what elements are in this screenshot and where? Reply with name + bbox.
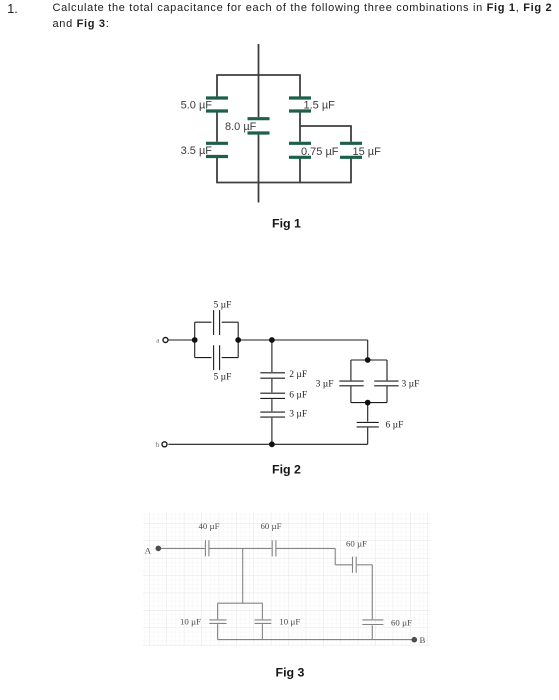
svg-text:Fig 2: Fig 2 [272, 463, 301, 477]
wire: right loop left side segments [350, 360, 352, 403]
node dot right of 5uF loop [235, 337, 241, 343]
svg-text:B: B [420, 635, 426, 645]
wire: parallel block top side [218, 602, 263, 604]
node dot bottom of right loop [365, 400, 371, 406]
svg-text:15 µF: 15 µF [353, 146, 382, 158]
svg-text:60 µF: 60 µF [261, 521, 282, 531]
svg-text:3.5 µF: 3.5 µF [181, 145, 213, 157]
node dot main junction [269, 337, 275, 343]
svg-text:1.5 µF: 1.5 µF [304, 100, 336, 112]
svg-text:a: a [156, 336, 160, 344]
svg-text:10 µF: 10 µF [279, 616, 300, 626]
capacitor 3uF right plates [374, 381, 398, 386]
wire: right loop top side [351, 359, 387, 361]
wire: parallel block right side [261, 603, 263, 639]
capacitor 40uF plates [205, 540, 209, 556]
svg-text:0.75 µF: 0.75 µF [301, 146, 339, 158]
wire: right branch down [371, 565, 373, 640]
capacitor 8.0uF plates [248, 119, 270, 133]
wire: step to 60uF mid [335, 564, 352, 566]
svg-text:40 µF: 40 µF [199, 521, 220, 531]
question number [7, 2, 18, 16]
svg-text:5 µF: 5 µF [214, 373, 232, 383]
terminal a [163, 338, 168, 343]
capacitor 60uF mid plates [353, 557, 357, 573]
svg-text:b: b [156, 441, 160, 449]
wire: 40uF to 60uF [210, 547, 272, 549]
svg-text:A: A [145, 545, 152, 555]
capacitor 5uF bottom plates [214, 345, 220, 370]
svg-text:5 µF: 5 µF [214, 301, 232, 311]
capacitor 3uF left plates [339, 381, 363, 386]
svg-text:3 µF: 3 µF [289, 410, 307, 420]
wire: step down [334, 548, 336, 564]
question text line 2 [53, 18, 110, 30]
svg-text:Fig 3: Fig 3 [276, 665, 305, 679]
wire: sub-branch horizontal [300, 125, 352, 127]
capacitor 15uF plates [340, 143, 362, 157]
wire: center vertical bottom segment [258, 135, 260, 203]
capacitor 5uF top plates [214, 310, 220, 335]
capacitor 3.5uF plates [206, 143, 228, 156]
wire: bottom rail b [168, 443, 367, 445]
svg-text:3 µF: 3 µF [402, 379, 420, 389]
capacitor 5.0uF plates [206, 98, 228, 111]
capacitor 3uF plates (middle branch) [260, 412, 285, 417]
svg-text:6 µF: 6 µF [386, 421, 404, 431]
wire: right loop right side segments [386, 360, 388, 403]
capacitor 6uF plates (middle branch) [260, 393, 285, 398]
capacitor 2uF plates [260, 373, 285, 378]
terminal B dot [412, 637, 418, 643]
node dot left of 5uF loop [192, 337, 198, 343]
terminal b [162, 442, 167, 447]
wire: middle series branch segments [271, 340, 273, 444]
capacitor 60uF lower plates [362, 620, 383, 625]
wire: main horizontal to right network [238, 339, 368, 341]
wire: bottom rail [216, 182, 352, 184]
svg-text:Fig 1: Fig 1 [272, 217, 301, 231]
capacitor 60uF top plates [272, 540, 276, 556]
capacitor 0.75uF plates [289, 143, 311, 157]
wire: left parallel loop left side [194, 322, 196, 357]
wire: a to left node [168, 339, 194, 341]
svg-text:2 µF: 2 µF [289, 370, 307, 380]
capacitor 6uF plates (right branch) [357, 422, 379, 427]
wire: loop bottom side segments [195, 357, 239, 359]
node dot bottom rail junction [269, 441, 275, 447]
wire: 60uF mid to right corner [357, 564, 373, 566]
wire: A to 40uF [161, 547, 205, 549]
wire: loop top side segments [195, 321, 239, 323]
wire: parallel block left side [217, 603, 219, 639]
svg-text:6 µF: 6 µF [289, 391, 307, 401]
wire: center vertical top segment [258, 44, 260, 117]
svg-text:5.0 µF: 5.0 µF [181, 100, 213, 112]
wire: right branch upper [299, 75, 301, 183]
capacitor 1.5uF plates [289, 98, 311, 111]
wire: down to top node of right loop [367, 340, 369, 360]
svg-text:3 µF: 3 µF [316, 379, 334, 389]
wire: loop right side [237, 322, 239, 357]
question text line 1 [53, 2, 553, 14]
capacitor 10uF left plates [209, 620, 226, 624]
grid background [143, 512, 431, 646]
wire: junction down to parallel block [242, 548, 244, 603]
svg-text:8.0 µF: 8.0 µF [225, 121, 257, 133]
terminal A dot [156, 546, 162, 552]
wire: right loop bottom side [351, 402, 387, 404]
wire: 15uF branch vertical [350, 126, 352, 183]
wire: bottom rail to B [218, 639, 412, 641]
wire: top rail [216, 74, 301, 76]
node dot top of right loop [365, 357, 371, 363]
svg-text:60 µF: 60 µF [391, 617, 412, 627]
wire: left branch segments [216, 75, 218, 183]
wire: 60uF to step corner [277, 547, 336, 549]
wire: bottom node to 6uF cap [367, 403, 369, 445]
svg-text:60 µF: 60 µF [346, 538, 367, 548]
svg-text:10 µF: 10 µF [180, 616, 201, 626]
capacitor 10uF right plates [255, 620, 272, 624]
